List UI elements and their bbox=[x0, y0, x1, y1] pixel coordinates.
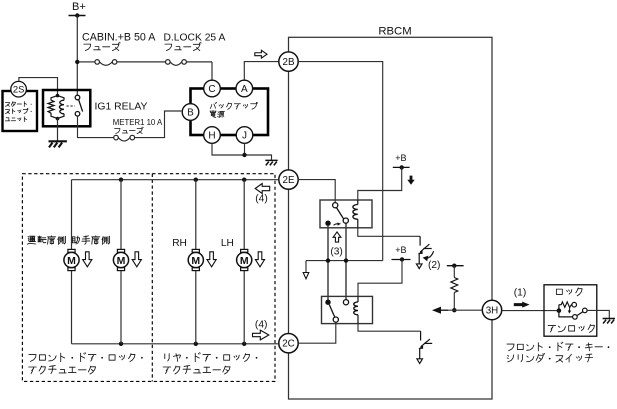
pin J bbox=[236, 127, 253, 144]
relay IG1 switch bbox=[75, 95, 80, 100]
switch resistor branch (lock) bbox=[558, 305, 560, 311]
actuator dashed box bbox=[22, 174, 275, 382]
ground backup power bbox=[265, 160, 277, 165]
wire branch to output arrow bbox=[305, 261, 307, 273]
relay IG1 box bbox=[43, 90, 90, 126]
label rear door lock actuator bbox=[165, 353, 250, 362]
connector 2C bbox=[279, 334, 298, 353]
arrow flow into 2B bbox=[255, 50, 267, 58]
RBCM box bbox=[289, 37, 493, 399]
wire R1 moving contact to R2 upper contact bbox=[345, 223, 347, 299]
connector 2S bbox=[11, 81, 27, 97]
arrow (4) unlock flow bbox=[255, 184, 270, 194]
svg-text:(4): (4) bbox=[255, 319, 268, 330]
transistor Q3 driver bbox=[420, 331, 422, 340]
node B+ supply bar bbox=[69, 15, 86, 17]
svg-text:RH: RH bbox=[172, 238, 187, 249]
relay R1 coil bbox=[357, 200, 359, 205]
wire +B2 to R2 coil bbox=[358, 260, 402, 297]
relay R2 coil bbox=[357, 296, 359, 302]
wire fuse feed line bbox=[80, 61, 95, 63]
relay IG1 coil (resistor + inductor parallel) bbox=[56, 94, 60, 98]
svg-text:B: B bbox=[187, 108, 194, 119]
svg-text:+B: +B bbox=[395, 245, 406, 255]
wire R1 fixed contact to R2 fixed contact bbox=[327, 226, 329, 300]
motor M bbox=[68, 249, 75, 252]
relay R1 switch bbox=[333, 203, 338, 208]
wire IG1 coil to ground bbox=[57, 119, 59, 142]
wire R1 coil to driver Q2 bbox=[358, 228, 420, 237]
arrow (3) actuation bbox=[333, 232, 341, 242]
relay IG1 coil-switch dashed link bbox=[67, 105, 76, 107]
arrow output down (open) bbox=[303, 273, 309, 279]
resistor pull-up bbox=[453, 266, 455, 278]
wire 3H to key cylinder switch bbox=[502, 310, 559, 312]
svg-text:(1): (1) bbox=[514, 288, 526, 299]
svg-text:2C: 2C bbox=[282, 339, 295, 350]
pin C bbox=[204, 80, 221, 97]
wire R2 coil to driver Q3 bbox=[358, 324, 421, 332]
wire motor column x=71.5 bbox=[71, 180, 73, 250]
supply bar for sense resistor bbox=[447, 265, 464, 267]
connector 2B bbox=[279, 52, 298, 71]
wire motor column x=121 bbox=[120, 180, 122, 250]
wire H and J to ground bbox=[212, 143, 272, 160]
arrow feed down filled bbox=[407, 176, 414, 185]
label front door lock actuator bbox=[29, 353, 135, 362]
ground IG1 relay bbox=[49, 141, 67, 147]
arrow actuation down bbox=[83, 252, 92, 267]
arrow actuation down bbox=[207, 252, 216, 267]
svg-text:M: M bbox=[67, 255, 76, 267]
wire bus top to 2E bbox=[72, 179, 279, 181]
ground key cylinder bbox=[603, 319, 615, 324]
connector 3H bbox=[482, 300, 501, 319]
fuse D.LOCK 25 A bbox=[166, 60, 171, 65]
motor M bbox=[117, 249, 124, 252]
motor M bbox=[192, 249, 199, 252]
label driver side bbox=[27, 236, 65, 245]
switch actuation mini arrow bbox=[568, 307, 570, 311]
wire A up to 2B bbox=[244, 62, 278, 81]
arrow (2) actuation bbox=[426, 251, 434, 258]
wire switch output to ground bbox=[587, 310, 609, 318]
fuse CABIN.+B 50 A bbox=[95, 60, 100, 65]
svg-text:RBCM: RBCM bbox=[378, 26, 411, 38]
wire 2S to IG1 relay coil bbox=[19, 78, 58, 96]
switch lower branch (unlock) bbox=[559, 311, 573, 317]
wire B+ vertical down to fuse line and IG1 relay switch bbox=[76, 16, 78, 96]
pin H bbox=[204, 127, 221, 144]
node resistor/3H wire bbox=[452, 308, 456, 312]
wire bus bottom to 2C bbox=[72, 343, 279, 345]
svg-text:(3): (3) bbox=[330, 247, 342, 258]
connector 2E bbox=[279, 170, 298, 189]
label front door key cylinder switch bbox=[507, 342, 602, 351]
svg-text:D.LOCK 25 A: D.LOCK 25 A bbox=[164, 33, 226, 44]
wire junction net y=260.6 bbox=[306, 260, 383, 262]
wire IG1 switch to METER1 fuse to B bbox=[78, 116, 114, 138]
svg-text:CABIN.+B 50 A: CABIN.+B 50 A bbox=[82, 32, 156, 44]
actuator dashed divider bbox=[151, 174, 153, 382]
start-stop unit box bbox=[3, 91, 38, 131]
svg-text:M: M bbox=[240, 255, 249, 267]
svg-text:H: H bbox=[208, 131, 215, 142]
wire 2E to relay R1 switch bbox=[298, 180, 335, 203]
wire R2 output to 2C bbox=[298, 322, 336, 343]
svg-text:M: M bbox=[117, 255, 126, 267]
svg-text:2B: 2B bbox=[283, 57, 295, 68]
node H/J junction bbox=[242, 153, 246, 157]
pin B bbox=[182, 104, 199, 121]
svg-text:J: J bbox=[242, 131, 247, 142]
svg-text:M: M bbox=[191, 255, 200, 267]
label passenger side bbox=[72, 236, 110, 245]
svg-text:(2): (2) bbox=[428, 260, 440, 271]
wire 3H internal with filled left arrow bbox=[440, 309, 482, 311]
relay R2 box bbox=[322, 296, 373, 323]
svg-text:2E: 2E bbox=[283, 175, 295, 186]
wire D.LOCK fuse output down to C bbox=[211, 62, 213, 80]
wire motor column x=244.2 bbox=[243, 180, 245, 250]
key cylinder switch box bbox=[544, 285, 597, 336]
node junction B+/fuse line bbox=[75, 60, 79, 64]
wire +B1 to R1 coil bbox=[358, 167, 402, 200]
transistor Q2 driver bbox=[419, 236, 421, 245]
backup power unit box bbox=[191, 89, 269, 136]
motor M bbox=[241, 249, 248, 252]
switch common node bbox=[557, 308, 562, 313]
pin A bbox=[236, 80, 253, 97]
fuse METER1 10 A bbox=[114, 135, 119, 140]
svg-text:A: A bbox=[241, 84, 248, 95]
svg-text:+B: +B bbox=[395, 153, 406, 163]
svg-text:B+: B+ bbox=[72, 1, 86, 13]
relay R1 box bbox=[320, 200, 372, 228]
arrow actuation down bbox=[255, 252, 264, 267]
svg-text:C: C bbox=[208, 84, 215, 95]
svg-text:IG1 RELAY: IG1 RELAY bbox=[95, 101, 148, 112]
svg-text:(4): (4) bbox=[255, 194, 268, 205]
wire motor column x=195.8 bbox=[195, 180, 197, 250]
switch blade bbox=[577, 312, 583, 316]
relay R2 switch bbox=[325, 300, 330, 305]
svg-text:3H: 3H bbox=[486, 305, 499, 316]
wire 2B internal feed bbox=[298, 62, 383, 261]
arrow actuation down bbox=[132, 252, 141, 267]
svg-text:2S: 2S bbox=[13, 84, 24, 95]
svg-text:LH: LH bbox=[221, 238, 234, 249]
svg-text:METER1 10 A: METER1 10 A bbox=[113, 118, 163, 127]
